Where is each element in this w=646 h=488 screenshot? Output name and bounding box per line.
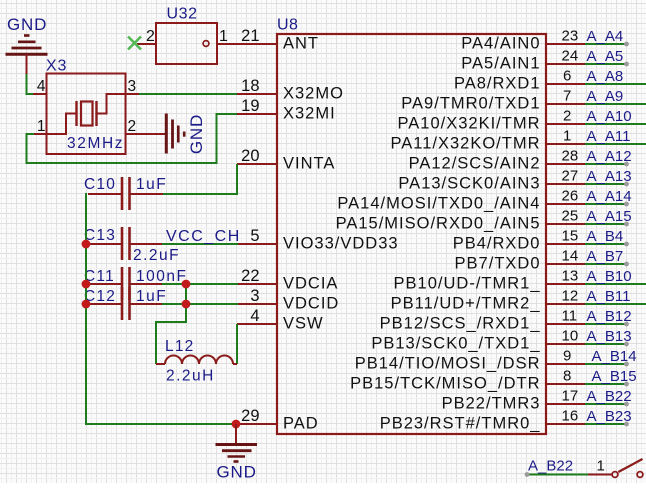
svg-text:PA5/AIN1: PA5/AIN1 — [461, 55, 540, 73]
net label wire A_A11 — [585, 128, 646, 145]
svg-text:14: 14 — [562, 248, 579, 265]
wire left rail (C10..PAD ground net) — [86, 193, 236, 424]
svg-text:11: 11 — [562, 308, 578, 325]
svg-text:16: 16 — [562, 408, 579, 425]
svg-text:PB14/TIO/MOSI_/DSR: PB14/TIO/MOSI_/DSR — [355, 355, 541, 373]
svg-text:1uF: 1uF — [136, 176, 167, 193]
U8 pin 5 VIO33/VDD33 — [237, 227, 399, 253]
svg-text:U32: U32 — [167, 6, 198, 23]
wire GND to X3 pin 4 — [27, 74, 35, 94]
svg-text:2: 2 — [128, 118, 137, 135]
ground symbol GND (bottom, at PAD) — [216, 424, 258, 462]
svg-text:PB22/TMR3: PB22/TMR3 — [442, 395, 541, 413]
svg-text:4: 4 — [37, 78, 46, 95]
svg-text:23: 23 — [562, 28, 579, 45]
no-connect X on U32 pin 2 — [128, 37, 141, 50]
wire VDCIA net (C11 to U8 pin22) — [162, 283, 238, 285]
wire VCC_CH net (C13 to U8 pin5) — [162, 243, 238, 245]
net label wire A_B11 — [585, 288, 646, 305]
svg-text:PA14/MOSI/TXD0_/AIN4: PA14/MOSI/TXD0_/AIN4 — [337, 195, 540, 213]
svg-text:VDCIA: VDCIA — [283, 275, 338, 293]
net label wire A_A12 — [585, 148, 632, 166]
net label wire A_B22 — [585, 388, 632, 406]
switch S (contacts + lever) — [612, 459, 643, 477]
svg-text:8: 8 — [563, 368, 571, 385]
svg-text:GND: GND — [217, 463, 257, 482]
svg-text:A_B23: A_B23 — [587, 408, 632, 425]
U8 pin 21 ANT — [241, 27, 319, 53]
svg-text:PB23/RST#/TMR0_: PB23/RST#/TMR0_ — [380, 415, 541, 433]
U8 pin 16 PB23/RST#/TMR0_ — [380, 408, 586, 433]
svg-text:12: 12 — [562, 288, 579, 305]
svg-text:A_B14: A_B14 — [592, 348, 637, 365]
junction C12/rail — [82, 300, 91, 309]
svg-text:4: 4 — [250, 307, 259, 325]
net label wire A_B13 — [585, 328, 632, 346]
U8 pin 26 PA14/MOSI/TXD0_/AIN4 — [337, 188, 586, 213]
U8 pin 1 PA11/X32KO/TMR — [390, 128, 586, 153]
svg-text:PB11/UD+/TMR2_: PB11/UD+/TMR2_ — [391, 295, 541, 313]
net A_B22 wire to switch — [525, 472, 588, 477]
svg-text:PAD: PAD — [283, 415, 319, 433]
svg-text:1: 1 — [597, 458, 605, 475]
net label wire A_B12 — [585, 308, 632, 326]
svg-text:28: 28 — [562, 148, 579, 165]
svg-text:U8: U8 — [277, 17, 298, 34]
net label wire A_B14 — [585, 348, 637, 366]
svg-text:A_B7: A_B7 — [587, 248, 624, 265]
junction C11/rail — [82, 280, 91, 289]
svg-text:32MHz: 32MHz — [67, 135, 124, 152]
svg-text:3: 3 — [250, 287, 259, 305]
U8 pin 10 PB13/SCK0_/TXD1_ — [371, 328, 586, 353]
U8 pin 13 PB10/UD-/TMR1_ — [394, 268, 586, 293]
svg-text:PB7/TXD0: PB7/TXD0 — [455, 255, 541, 273]
U8 pin 14 PB7/TXD0 — [455, 248, 586, 273]
svg-text:PA8/RXD1: PA8/RXD1 — [454, 75, 541, 93]
net label wire A_A10 — [585, 108, 646, 125]
capacitor C12 — [88, 287, 163, 320]
svg-text:2.2uH: 2.2uH — [166, 368, 215, 385]
net label wire A_A9 — [585, 88, 646, 105]
U8 pin 25 PA15/MISO/RXD0_/AIN5 — [336, 208, 586, 233]
wire C11/C12 junction to L12 left — [156, 284, 186, 364]
svg-text:5: 5 — [250, 227, 259, 245]
svg-text:A_B11: A_B11 — [587, 288, 631, 305]
svg-text:L12: L12 — [165, 338, 194, 355]
junction C13/rail — [82, 240, 91, 249]
U8 pin 23 PA4/AIN0 — [461, 28, 586, 53]
net label wire A_B23 — [585, 408, 632, 426]
svg-text:10: 10 — [562, 328, 579, 345]
svg-text:1: 1 — [563, 128, 571, 145]
U8 pin 20 VINTA — [237, 147, 335, 173]
svg-text:25: 25 — [562, 208, 579, 225]
svg-text:A_A5: A_A5 — [587, 48, 624, 65]
svg-text:PA12/SCS/AIN2: PA12/SCS/AIN2 — [409, 155, 541, 173]
svg-text:PB10/UD-/TMR1_: PB10/UD-/TMR1_ — [394, 275, 541, 293]
svg-text:A_A11: A_A11 — [587, 128, 631, 145]
svg-text:PA11/X32KO/TMR: PA11/X32KO/TMR — [390, 135, 540, 153]
svg-text:A_B22: A_B22 — [587, 388, 632, 405]
net label wire A_A5 — [585, 48, 629, 66]
svg-text:17: 17 — [562, 388, 579, 405]
svg-text:27: 27 — [562, 168, 579, 185]
svg-text:A_A13: A_A13 — [587, 168, 632, 185]
U8 pin 28 PA12/SCS/AIN2 — [409, 148, 586, 173]
svg-text:21: 21 — [241, 27, 259, 45]
svg-text:A_A14: A_A14 — [587, 188, 632, 205]
ground symbol GND (sideways, at X3 pin2) — [166, 114, 184, 154]
svg-text:1: 1 — [219, 28, 228, 45]
wire net X32MO (X3 pin3 to U8 pin18) — [139, 93, 238, 95]
wire U32 pin1 to U8 ANT pin — [217, 43, 277, 45]
svg-text:22: 22 — [241, 267, 259, 285]
component U32 — [137, 23, 217, 64]
svg-text:PA4/AIN0: PA4/AIN0 — [461, 35, 540, 53]
svg-text:PB12/SCS_/RXD1_: PB12/SCS_/RXD1_ — [380, 315, 541, 333]
crystal X3 — [33, 74, 140, 155]
wire X3 pin 2 to ground — [126, 133, 167, 135]
svg-text:PB15/TCK/MISO_/DTR: PB15/TCK/MISO_/DTR — [350, 375, 540, 393]
svg-text:PB4/RXD0: PB4/RXD0 — [453, 235, 541, 253]
net label wire A_A8 — [585, 68, 646, 85]
U8 pin 17 PB22/TMR3 — [442, 388, 586, 413]
U8 pin 11 PB12/SCS_/RXD1_ — [380, 308, 586, 333]
svg-text:1uF: 1uF — [136, 288, 167, 305]
svg-text:29: 29 — [241, 407, 259, 425]
svg-text:A_A15: A_A15 — [587, 208, 632, 225]
svg-text:24: 24 — [562, 48, 579, 65]
net label wire A_A15 — [585, 208, 632, 226]
svg-text:A_B22: A_B22 — [528, 458, 573, 475]
svg-text:GND: GND — [7, 15, 47, 34]
net label wire A_A4 — [585, 28, 629, 46]
svg-text:PA9/TMR0/TXD1: PA9/TMR0/TXD1 — [401, 95, 540, 113]
junction PAD/GND — [232, 420, 241, 429]
svg-text:1: 1 — [37, 118, 46, 135]
svg-text:ANT: ANT — [283, 35, 319, 53]
svg-text:A_B12: A_B12 — [587, 308, 632, 325]
svg-text:X32MO: X32MO — [283, 85, 344, 103]
U8 pin 8 PB15/TCK/MISO_/DTR — [350, 368, 586, 393]
capacitor C10 — [88, 177, 163, 210]
wire net X32MI (X3 pin1 to U8 pin19) — [27, 114, 239, 163]
svg-text:20: 20 — [241, 147, 259, 165]
svg-text:26: 26 — [562, 188, 579, 205]
U8 pin 19 X32MI — [237, 97, 336, 123]
svg-text:A_A12: A_A12 — [587, 148, 632, 165]
svg-text:19: 19 — [241, 97, 259, 115]
svg-text:13: 13 — [562, 268, 579, 285]
net label wire A_B10 — [585, 268, 646, 285]
U8 pin 24 PA5/AIN1 — [461, 48, 586, 73]
U8 pin 3 VDCID — [237, 287, 339, 313]
svg-text:A_A10: A_A10 — [587, 108, 632, 125]
svg-text:VINTA: VINTA — [283, 155, 335, 173]
svg-text:2: 2 — [146, 28, 155, 45]
svg-text:3: 3 — [128, 78, 137, 95]
U8 pin 2 PA10/X32KI/TMR — [398, 108, 587, 133]
svg-text:VSW: VSW — [283, 315, 324, 333]
svg-text:PA13/SCK0/AIN3: PA13/SCK0/AIN3 — [398, 175, 540, 193]
U8 pin 22 VDCIA — [237, 267, 338, 293]
net label wire A_B7 — [585, 248, 629, 266]
net label wire A_B4 — [585, 228, 629, 246]
net label wire A_A14 — [585, 188, 632, 206]
svg-text:A_B13: A_B13 — [587, 328, 632, 345]
capacitor C13 — [88, 227, 163, 260]
net label wire A_B15 — [585, 368, 637, 386]
svg-text:VCC_CH: VCC_CH — [166, 228, 241, 245]
U8 pin 18 X32MO — [237, 77, 344, 103]
U8 pin 4 VSW — [237, 307, 324, 333]
U8 pin 15 PB4/RXD0 — [453, 228, 586, 253]
svg-text:GND: GND — [187, 114, 206, 154]
svg-text:9: 9 — [563, 348, 571, 365]
svg-text:A_A4: A_A4 — [587, 28, 624, 45]
svg-text:PA10/X32KI/TMR: PA10/X32KI/TMR — [398, 115, 541, 133]
svg-text:15: 15 — [562, 228, 579, 245]
svg-text:C10: C10 — [84, 176, 116, 193]
wire VDCID net (C12 to U8 pin3) — [162, 303, 238, 305]
svg-text:A_B10: A_B10 — [587, 268, 632, 285]
capacitor C11 — [88, 267, 163, 300]
IC U8 — [277, 34, 546, 434]
svg-text:VIO33/VDD33: VIO33/VDD33 — [283, 235, 399, 253]
junction C11/L12 — [182, 280, 191, 289]
wire to switch pin 1 — [588, 474, 612, 476]
svg-text:A_B15: A_B15 — [592, 368, 637, 385]
svg-text:2: 2 — [563, 108, 571, 125]
U8 pin 27 PA13/SCK0/AIN3 — [398, 168, 586, 193]
svg-text:VDCID: VDCID — [283, 295, 339, 313]
net label wire A_A13 — [585, 168, 632, 186]
inductor L12 — [156, 356, 237, 365]
svg-text:PA15/MISO/RXD0_/AIN5: PA15/MISO/RXD0_/AIN5 — [336, 215, 541, 233]
U8 pin 29 PAD — [237, 407, 319, 433]
svg-text:A_A8: A_A8 — [587, 68, 624, 85]
svg-text:A_A9: A_A9 — [587, 88, 624, 105]
wire VINTA to C10 — [163, 164, 237, 194]
svg-text:A_B4: A_B4 — [587, 228, 624, 245]
junction C12/L12 — [182, 300, 191, 309]
svg-text:6: 6 — [563, 68, 571, 85]
U8 pin 6 PA8/RXD1 — [454, 68, 586, 93]
svg-text:7: 7 — [563, 88, 571, 105]
svg-text:X3: X3 — [46, 58, 67, 75]
svg-text:X32MI: X32MI — [283, 105, 336, 123]
svg-text:2.2uF: 2.2uF — [133, 247, 180, 264]
ground symbol GND (top-left) — [6, 36, 48, 76]
wire VSW to L12 right — [236, 324, 238, 364]
U8 pin 12 PB11/UD+/TMR2_ — [391, 288, 586, 313]
U8 pin 9 PB14/TIO/MOSI_/DSR — [355, 348, 586, 373]
svg-text:100nF: 100nF — [136, 268, 187, 285]
svg-text:PB13/SCK0_/TXD1_: PB13/SCK0_/TXD1_ — [371, 335, 540, 353]
svg-text:18: 18 — [241, 77, 259, 95]
U8 pin 7 PA9/TMR0/TXD1 — [401, 88, 586, 113]
